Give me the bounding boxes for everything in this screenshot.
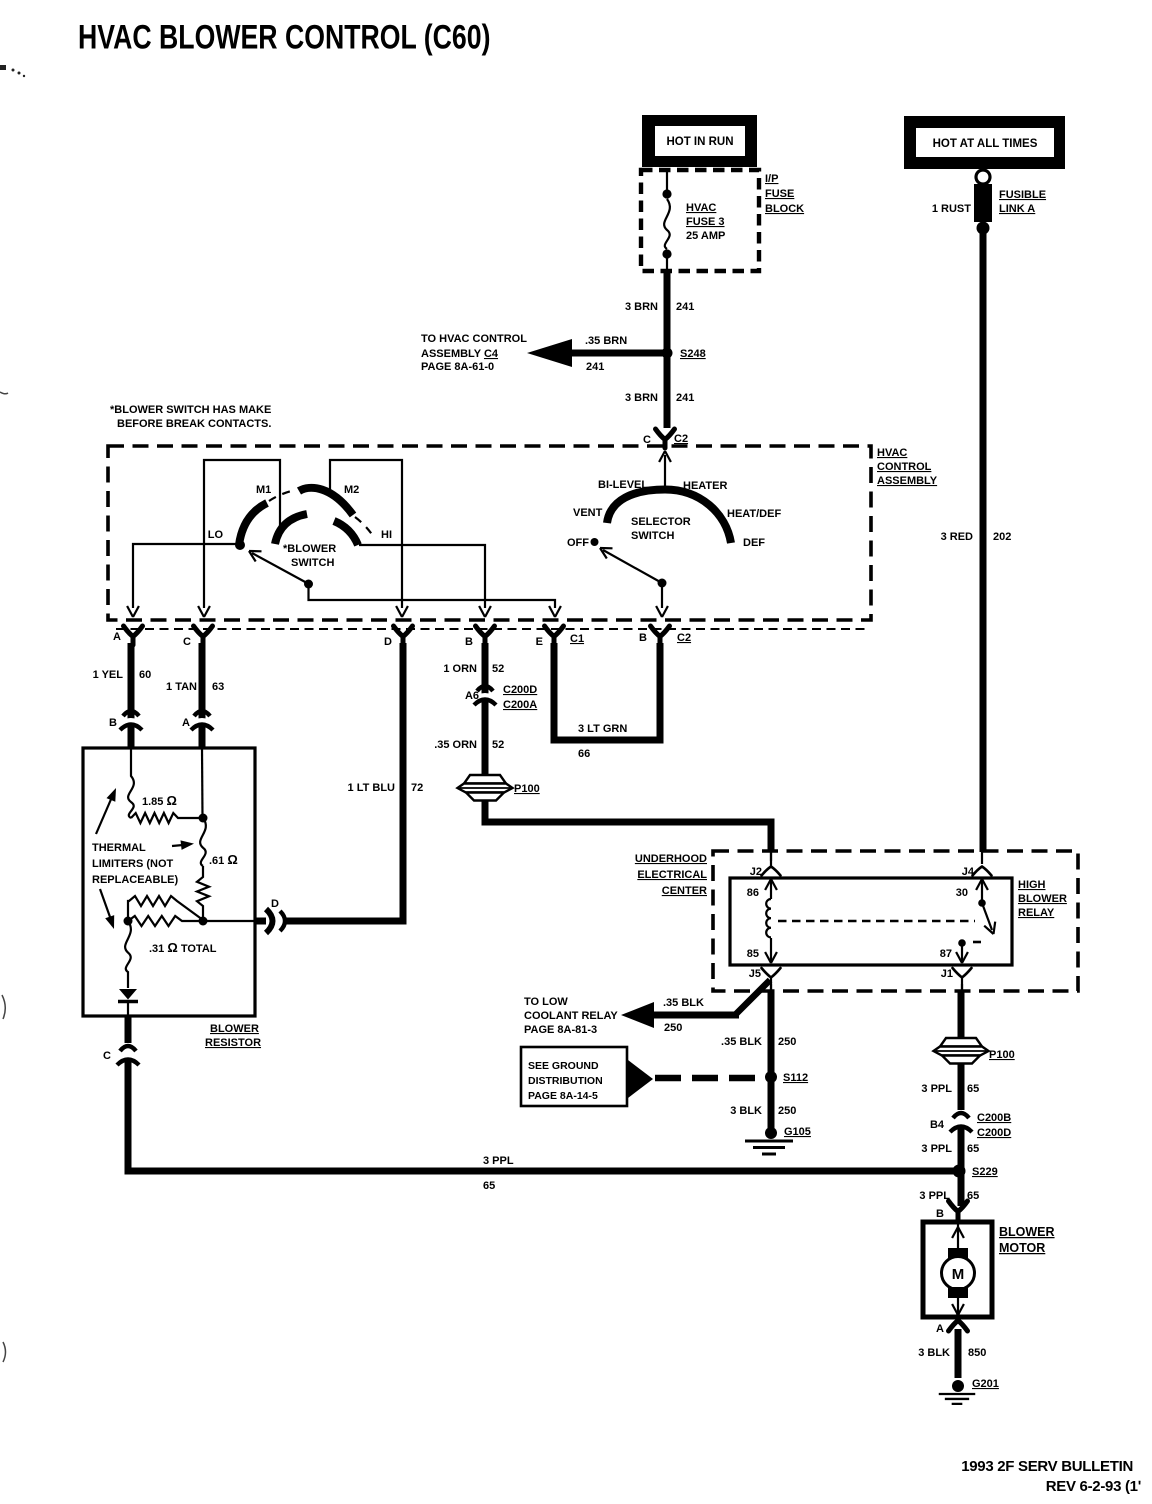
wire label 3 PPL 65 (lower) <box>919 1190 979 1202</box>
svg-text:A: A <box>182 717 190 729</box>
pointer arrows to thermal limiters <box>96 797 112 834</box>
ground G201 <box>952 1380 964 1392</box>
svg-text:HVAC BLOWER CONTROL (C60): HVAC BLOWER CONTROL (C60) <box>78 18 490 56</box>
svg-text:G201: G201 <box>972 1378 999 1390</box>
motor M1 internals <box>957 1224 959 1248</box>
svg-text:CONTROL: CONTROL <box>877 461 932 473</box>
wire J1 to P100 <box>961 984 963 991</box>
svg-text:3 PPL: 3 PPL <box>921 1143 952 1155</box>
svg-text:P100: P100 <box>989 1049 1015 1061</box>
svg-text:C: C <box>183 636 191 648</box>
wire 1 YEL 60 terminal A down <box>128 643 135 748</box>
svg-text:B4: B4 <box>930 1119 945 1131</box>
relay pin 85 arrow <box>770 938 772 961</box>
resistor .31 ohm lower branch <box>128 916 203 926</box>
blower resistor box <box>83 748 255 1016</box>
svg-text:S229: S229 <box>972 1166 998 1178</box>
svg-text:G105: G105 <box>784 1126 811 1138</box>
svg-text:C1: C1 <box>570 633 584 645</box>
svg-text:1.85 Ω: 1.85 Ω <box>142 793 177 808</box>
label .35 BRN / 241 on branch <box>585 335 627 373</box>
svg-text:*BLOWER SWITCH HAS MAKE: *BLOWER SWITCH HAS MAKE <box>110 404 271 416</box>
motor terminal A <box>949 1316 968 1331</box>
label UNDERHOOD ELECTRICAL CENTER <box>635 853 707 897</box>
svg-text:1 LT BLU: 1 LT BLU <box>348 782 396 794</box>
svg-text:3 BRN: 3 BRN <box>625 392 658 404</box>
wire 1 TAN 63 terminal C down <box>199 643 206 748</box>
svg-text:LO: LO <box>208 529 224 541</box>
svg-text:72: 72 <box>411 782 423 794</box>
svg-text:HOT IN RUN: HOT IN RUN <box>666 136 733 148</box>
selector switch arc <box>607 490 731 544</box>
svg-text:241: 241 <box>676 301 694 313</box>
inline connector B on YEL wire <box>120 711 142 730</box>
svg-text:A6: A6 <box>465 690 479 702</box>
label HVAC CONTROL ASSEMBLY <box>877 447 938 487</box>
svg-text:A: A <box>936 1323 944 1335</box>
svg-text:.61 Ω: .61 Ω <box>209 852 238 867</box>
label *BLOWER SWITCH <box>283 543 336 569</box>
svg-text:250: 250 <box>778 1105 796 1117</box>
svg-text:30: 30 <box>956 887 968 899</box>
svg-text:*BLOWER: *BLOWER <box>283 543 336 555</box>
svg-text:HEATER: HEATER <box>683 480 727 492</box>
note: blower switch make before break <box>110 404 271 430</box>
svg-text:86: 86 <box>747 887 759 899</box>
note TO LOW COOLANT RELAY PAGE 8A-81-3 <box>524 996 618 1036</box>
svg-text:FUSE: FUSE <box>765 188 794 200</box>
svg-text:1 TAN: 1 TAN <box>166 681 197 693</box>
thermal limiter 1 <box>128 748 134 818</box>
svg-text:65: 65 <box>483 1180 495 1192</box>
blower switch dashed arc M1 gap <box>269 490 296 501</box>
svg-text:TO HVAC CONTROL: TO HVAC CONTROL <box>421 333 527 345</box>
svg-text:FUSE 3: FUSE 3 <box>686 216 725 228</box>
svg-text:LIMITERS (NOT: LIMITERS (NOT <box>92 858 174 870</box>
wire 3 BLK 850 to G201 <box>955 1329 962 1378</box>
output C: wire below resistor <box>125 1016 132 1043</box>
relay pin 87 arrow <box>961 945 963 961</box>
svg-text:PAGE 8A-81-3: PAGE 8A-81-3 <box>524 1024 597 1036</box>
selector wiper arm with arrow to OFF <box>603 550 662 583</box>
fusible link A <box>974 170 992 235</box>
svg-text:BI-LEVEL: BI-LEVEL <box>598 479 648 491</box>
svg-text:D: D <box>384 636 392 648</box>
svg-text:B: B <box>936 1208 944 1220</box>
wire J5 to S112/G105 <box>770 984 772 991</box>
inline connector A6 C200D/C200A <box>474 686 496 705</box>
wire label 3 RED 202 <box>941 531 1012 543</box>
scan specks top-left <box>0 65 25 77</box>
power label: HOT IN RUN <box>642 115 757 167</box>
svg-text:3 LT GRN: 3 LT GRN <box>578 723 627 735</box>
connector C2 pin C (top of HVAC control assembly) <box>656 429 675 448</box>
see-ground arrow and dashed wire to S112 <box>628 1060 653 1098</box>
selector switch wire to C2 pin C (arrow up) <box>664 455 666 490</box>
splice S248 <box>662 348 673 359</box>
svg-text:UNDERHOOD: UNDERHOOD <box>635 853 707 865</box>
blower switch contact arc LO-M1 <box>239 503 267 545</box>
wire 1 LT BLU 72 from connector D up to switch terminal D <box>286 643 407 925</box>
wire 3 PPL 65 (upper) <box>958 1064 965 1110</box>
terminal D (connector) <box>394 626 413 645</box>
note: TO HVAC CONTROL ASSEMBLY C4 PAGE 8A-61-0 <box>421 333 527 373</box>
svg-text:63: 63 <box>212 681 224 693</box>
svg-text:52: 52 <box>492 663 504 675</box>
svg-text:I/P: I/P <box>765 173 778 185</box>
blower switch wiper arm with arrow to LO <box>252 553 307 583</box>
svg-text:65: 65 <box>967 1143 979 1155</box>
svg-text:THERMAL: THERMAL <box>92 842 146 854</box>
svg-text:C200D: C200D <box>977 1127 1011 1139</box>
svg-text:3 RED: 3 RED <box>941 531 973 543</box>
thermal limiter 3 <box>125 921 131 988</box>
grommet P100 (blower feed) <box>934 1038 989 1064</box>
svg-text:PAGE 8A-14-5: PAGE 8A-14-5 <box>528 1090 598 1102</box>
terminal E connector C1 <box>545 626 564 645</box>
splice S112 <box>765 1071 777 1083</box>
blower switch: wire M1 contact to terminal C <box>204 460 280 608</box>
resistor 1.85 ohm <box>131 813 203 823</box>
svg-text:3 BLK: 3 BLK <box>730 1105 762 1117</box>
selector wiper pivot <box>658 579 667 588</box>
svg-text:FUSIBLE: FUSIBLE <box>999 189 1046 201</box>
svg-text:DEF: DEF <box>743 537 765 549</box>
blower switch contact arc HI <box>334 521 358 545</box>
wire: fuse output 3 BRN 241 down to C2 <box>664 271 671 428</box>
terminal C (connector) <box>194 626 213 645</box>
svg-text:J2: J2 <box>750 866 762 878</box>
svg-text:S248: S248 <box>680 348 706 360</box>
inline connector B4 C200B/C200D <box>950 1113 972 1132</box>
grommet P100 (orange wire) <box>458 775 513 801</box>
terminal B connector C2 (selector) <box>651 626 670 645</box>
svg-text:.35 ORN: .35 ORN <box>434 739 477 751</box>
terminal A (connector) <box>124 626 143 645</box>
svg-text:M2: M2 <box>344 484 359 496</box>
connector face line (thin dashed) <box>116 628 868 630</box>
wire label 3 BRN 241 (upper) <box>625 301 694 313</box>
wire 1 ORN 52 terminal B down <box>482 643 489 777</box>
wire: branch to HVAC control assembly C4 (arrow left) <box>527 339 664 367</box>
relay switch blade <box>982 903 992 930</box>
output D: wire to connector D <box>203 920 255 922</box>
blower switch contact arc M2 (top) <box>299 488 353 515</box>
svg-text:BLOWER: BLOWER <box>999 1225 1055 1239</box>
I/P fuse block (dashed box) <box>641 170 759 271</box>
svg-text:HIGH: HIGH <box>1018 879 1046 891</box>
node left (.31 ohm) <box>124 917 133 926</box>
svg-text:MOTOR: MOTOR <box>999 1241 1045 1255</box>
svg-text:C200B: C200B <box>977 1112 1011 1124</box>
svg-text:65: 65 <box>967 1083 979 1095</box>
label HIGH BLOWER RELAY <box>1018 879 1067 919</box>
selector wiper to terminal B C2 <box>661 583 663 608</box>
svg-text:OFF: OFF <box>567 537 589 549</box>
labels LO M1 M2 HI <box>208 484 392 541</box>
svg-text:ASSEMBLY: ASSEMBLY <box>877 475 938 487</box>
svg-text:M: M <box>952 1266 965 1283</box>
svg-text:25 AMP: 25 AMP <box>686 230 725 242</box>
blower motor box <box>923 1222 992 1317</box>
diode (thermal fuse) <box>118 989 138 1017</box>
label I/P FUSE BLOCK <box>765 173 804 215</box>
svg-text:3 PPL: 3 PPL <box>921 1083 952 1095</box>
wire 3 PPL 65 resistor to S229 <box>125 1060 955 1171</box>
svg-text:SEE GROUND: SEE GROUND <box>528 1060 599 1072</box>
relay pin 86 arrow <box>770 881 772 899</box>
svg-text:SELECTOR: SELECTOR <box>631 516 691 528</box>
junction node (1.85/TAN) <box>199 814 208 823</box>
svg-text:C2: C2 <box>674 433 688 445</box>
fuse F3: HVAC FUSE 3 25 AMP <box>662 170 671 271</box>
svg-text:RELAY: RELAY <box>1018 907 1055 919</box>
wire label 3 BRN 241 (lower) <box>625 392 694 404</box>
high blower relay box <box>730 878 1012 965</box>
wire label 3 BLK 250 <box>730 1105 796 1117</box>
svg-text:M1: M1 <box>256 484 271 496</box>
wire 3 PPL 65 (middle) <box>958 1127 965 1206</box>
svg-text:3 PPL: 3 PPL <box>919 1190 950 1202</box>
svg-text:J5: J5 <box>749 968 761 980</box>
svg-text:J1: J1 <box>941 968 953 980</box>
label FUSIBLE LINK A <box>999 189 1046 215</box>
svg-text:DISTRIBUTION: DISTRIBUTION <box>528 1075 603 1087</box>
svg-text:241: 241 <box>676 392 694 404</box>
blower switch: wire M2 contact to terminal D <box>330 460 402 608</box>
wire .35 ORN to underhood J2 <box>482 800 772 852</box>
svg-text:250: 250 <box>778 1036 796 1048</box>
ground G105 <box>765 1127 777 1139</box>
relay terminal J5 <box>762 968 781 978</box>
inline connector A on TAN wire <box>191 711 213 730</box>
svg-text:HEAT/DEF: HEAT/DEF <box>727 508 781 520</box>
svg-text:RESISTOR: RESISTOR <box>205 1037 261 1049</box>
relay switch contact dash <box>973 941 981 944</box>
svg-text:SWITCH: SWITCH <box>291 557 334 569</box>
svg-text:60: 60 <box>139 669 151 681</box>
relay terminal J4 <box>973 867 992 876</box>
underhood electrical center dashed box <box>713 851 1078 991</box>
svg-text:ASSEMBLY C4: ASSEMBLY C4 <box>421 348 499 360</box>
label BLOWER RESISTOR <box>205 1023 261 1049</box>
selector OFF contact <box>591 538 599 546</box>
svg-text:REPLACEABLE): REPLACEABLE) <box>92 874 179 886</box>
svg-text:BEFORE BREAK CONTACTS.: BEFORE BREAK CONTACTS. <box>117 418 271 430</box>
wire from terminal C to junction <box>201 748 204 818</box>
svg-text:85: 85 <box>747 948 759 960</box>
svg-text:PAGE 8A-61-0: PAGE 8A-61-0 <box>421 361 494 373</box>
svg-text:HOT AT ALL TIMES: HOT AT ALL TIMES <box>933 138 1038 150</box>
HVAC control assembly dashed box <box>108 446 871 620</box>
svg-text:3 BLK: 3 BLK <box>918 1347 950 1359</box>
terminal B (connector) <box>476 626 495 645</box>
svg-text:52: 52 <box>492 739 504 751</box>
svg-text:S112: S112 <box>783 1072 808 1084</box>
svg-text:1 YEL: 1 YEL <box>93 669 124 681</box>
svg-text:.35 BLK: .35 BLK <box>663 997 704 1009</box>
svg-text:B: B <box>465 636 473 648</box>
splice S229 <box>953 1165 966 1178</box>
svg-text:850: 850 <box>968 1347 986 1359</box>
blower switch: wiper common to terminal E <box>309 584 556 608</box>
svg-text:1993 2F SERV BULLETIN: 1993 2F SERV BULLETIN <box>961 1458 1133 1475</box>
svg-text:1 ORN: 1 ORN <box>443 663 477 675</box>
blower switch inner bridge arc (left) <box>275 514 307 544</box>
resistor .31 ohm upper branch <box>128 896 203 920</box>
thermal limiter 2 <box>200 818 206 866</box>
svg-text:HVAC: HVAC <box>877 447 907 459</box>
svg-text:COOLANT RELAY: COOLANT RELAY <box>524 1010 618 1022</box>
svg-text:.35 BLK: .35 BLK <box>721 1036 762 1048</box>
wire: 3 RED 202 from fusible link to J4 <box>980 228 987 852</box>
wire 3 LT GRN 66 loop E(C1) to B(C2) <box>551 643 664 740</box>
relay pin 30 arrow <box>981 881 983 900</box>
svg-text:C: C <box>103 1050 111 1062</box>
svg-text:241: 241 <box>586 361 604 373</box>
svg-text:HVAC: HVAC <box>686 202 716 214</box>
svg-text:D: D <box>271 898 279 910</box>
svg-text:ELECTRICAL: ELECTRICAL <box>637 869 707 881</box>
svg-text:3 BRN: 3 BRN <box>625 301 658 313</box>
connector D (half splice) <box>266 909 285 933</box>
svg-text:3 PPL: 3 PPL <box>483 1155 514 1167</box>
inline connector C <box>117 1046 139 1065</box>
svg-text:HI: HI <box>381 529 392 541</box>
relay link dashed line <box>778 920 975 923</box>
svg-text:J4: J4 <box>962 866 975 878</box>
blower switch: wire LO contact to terminal A <box>133 544 238 608</box>
blower switch dashed arc HI gap <box>355 517 375 539</box>
wire label .35 BLK 250 <box>721 1036 796 1048</box>
svg-text:66: 66 <box>578 748 590 760</box>
svg-text:B: B <box>639 632 647 644</box>
svg-text:1 RUST: 1 RUST <box>932 203 971 215</box>
blower switch wiper pivot <box>304 580 313 589</box>
label THERMAL LIMITERS (NOT REPLACEABLE) <box>92 842 179 886</box>
blower switch: wire HI contact to terminal B <box>359 545 485 608</box>
node right (output D) <box>199 917 208 926</box>
selector position labels <box>567 479 781 549</box>
relay coil <box>766 899 771 937</box>
svg-text:C200A: C200A <box>503 699 537 711</box>
resistor .61 ohm <box>197 866 209 921</box>
svg-text:A: A <box>113 631 121 643</box>
svg-text:CENTER: CENTER <box>662 885 707 897</box>
label SELECTOR SWITCH <box>631 516 691 542</box>
svg-text:202: 202 <box>993 531 1011 543</box>
title: HVAC BLOWER CONTROL (C60) <box>78 18 490 56</box>
footer revision text <box>961 1458 1141 1495</box>
svg-text:SWITCH: SWITCH <box>631 530 674 542</box>
svg-text:B: B <box>109 717 117 729</box>
branch to low coolant relay <box>736 980 770 1014</box>
svg-text:LINK A: LINK A <box>999 203 1035 215</box>
svg-text:TO LOW: TO LOW <box>524 996 568 1008</box>
svg-text:C2: C2 <box>677 632 691 644</box>
motor terminal B <box>949 1201 968 1220</box>
svg-text:E: E <box>536 636 543 648</box>
fuse value label <box>686 202 725 242</box>
power label: HOT AT ALL TIMES <box>904 116 1065 169</box>
svg-text:BLOWER: BLOWER <box>1018 893 1067 905</box>
svg-text:P100: P100 <box>514 783 540 795</box>
svg-text:.31 Ω TOTAL: .31 Ω TOTAL <box>149 940 217 955</box>
blower switch contact dot LO <box>235 540 245 550</box>
relay terminal J2 <box>762 867 781 876</box>
see ground distribution box <box>521 1047 627 1106</box>
relay switch common dot <box>978 899 986 907</box>
svg-text:VENT: VENT <box>573 507 603 519</box>
svg-text:87: 87 <box>940 948 952 960</box>
relay terminal J1 <box>953 968 972 978</box>
svg-text:REV 6-2-93 (1ʹ: REV 6-2-93 (1ʹ <box>1046 1478 1141 1495</box>
label BLOWER MOTOR <box>999 1225 1055 1255</box>
relay pin 87 contact dot <box>958 939 966 947</box>
svg-text:250: 250 <box>664 1022 682 1034</box>
svg-text:BLOCK: BLOCK <box>765 203 804 215</box>
svg-text:BLOWER: BLOWER <box>210 1023 259 1035</box>
svg-text:.35 BRN: .35 BRN <box>585 335 627 347</box>
svg-text:C200D: C200D <box>503 684 537 696</box>
